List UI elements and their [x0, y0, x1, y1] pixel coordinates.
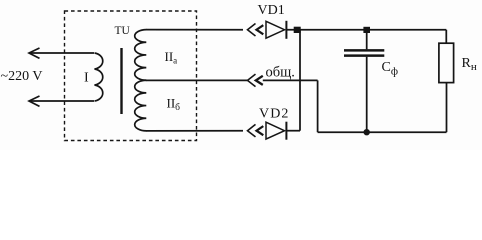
svg-text:Rн: Rн [462, 56, 477, 73]
node junction capacitor top [363, 27, 370, 33]
svg-text:VD1: VD1 [258, 3, 285, 18]
wire secondary bottom to VD2 [146, 130, 243, 132]
wire resistor bottom lead [446, 83, 448, 133]
wire secondary center tap to common [146, 79, 248, 81]
label Rn [462, 56, 477, 73]
arrow chevron small bottom row [257, 126, 264, 135]
transformer unit dashed enclosure TU [65, 11, 197, 141]
arrowhead input bottom [29, 96, 40, 106]
diode VD1 [266, 21, 294, 39]
wire secondary top to VD1 [146, 29, 243, 31]
wire bottom rail [318, 131, 447, 133]
wire top rail node to resistor corner [301, 29, 447, 31]
svg-text:I: I [84, 71, 89, 86]
arrowhead input top [29, 48, 40, 58]
label Cf [382, 60, 398, 77]
secondary winding IIb (lower) [135, 80, 147, 131]
primary winding I [95, 53, 103, 101]
label I (primary) [84, 71, 89, 86]
arrow chevron large top row [248, 24, 256, 37]
node junction capacitor bottom [364, 129, 370, 135]
svg-text:TU: TU [115, 25, 131, 37]
arrow chevron small common [256, 76, 263, 85]
wire input top ~220V [29, 52, 94, 54]
transformer core [120, 48, 122, 114]
label ~220 V [1, 69, 43, 84]
resistor Rn [439, 43, 454, 82]
label TU [115, 25, 131, 37]
arrow chevron large common [248, 74, 256, 87]
svg-text:IIб: IIб [167, 96, 181, 114]
wire capacitor bottom lead [366, 57, 368, 132]
wire capacitor top lead [366, 30, 368, 50]
svg-text:VD2: VD2 [259, 107, 290, 122]
arrow chevron large bottom row [248, 124, 256, 136]
svg-text:IIa: IIa [165, 49, 178, 66]
label common (obshch.) [266, 65, 295, 81]
arrow chevron small top row [257, 25, 264, 34]
label VD1 [258, 3, 285, 18]
secondary winding IIa (upper) [135, 30, 147, 81]
wire common vertical drop [317, 80, 319, 132]
label IIb [167, 96, 181, 114]
capacitor Cf [344, 50, 384, 55]
wire VD2 riser to top node [299, 30, 301, 131]
svg-text:Cф: Cф [382, 60, 398, 77]
label IIa [165, 49, 178, 66]
label VD2 [259, 107, 290, 122]
node junction VD1 output [294, 27, 301, 33]
svg-text:~220 V: ~220 V [1, 69, 43, 84]
wire common to down corner [263, 79, 318, 81]
diode VD2 [266, 122, 300, 140]
wire resistor top lead [445, 30, 447, 43]
svg-text:общ.: общ. [266, 65, 295, 81]
wire input bottom ~220V [29, 100, 94, 102]
